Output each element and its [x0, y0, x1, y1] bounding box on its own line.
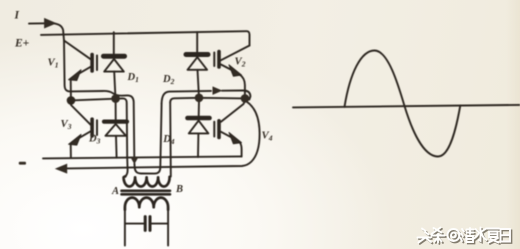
junction dot2 [111, 94, 120, 103]
wire V1 emitter to node [70, 80, 72, 97]
wire bottom rail [43, 156, 242, 158]
wire current path through primary U [134, 104, 161, 174]
junction dot3 [195, 94, 204, 103]
junction dot4 [241, 94, 250, 103]
transformer core [122, 190, 171, 193]
wire V3 emitter to bottom rail [70, 144, 72, 158]
diode D3 [104, 101, 127, 158]
transformer primary winding [124, 176, 170, 186]
wire secondary left lead [124, 210, 126, 246]
wire secondary right lead [167, 210, 169, 246]
diode D2 [186, 32, 208, 94]
diode D1 [104, 32, 125, 94]
wire V2 emitter to node [240, 75, 245, 96]
arrowhead input I [44, 18, 57, 29]
arrowhead path down A [130, 157, 138, 164]
transistor V2 [214, 46, 249, 77]
wire V1 branch from rail [63, 35, 66, 41]
arrowheads [44, 18, 222, 174]
wire lead A lower [125, 157, 127, 177]
wire current path upper return to V4 [162, 91, 211, 104]
transistor V4 [214, 102, 244, 144]
diode D4 [188, 101, 210, 157]
transistor V3 [69, 103, 97, 145]
label minus [19, 162, 26, 165]
waveform sine [345, 51, 461, 157]
wire lead B [169, 103, 172, 177]
transistor V1 [64, 41, 97, 81]
transformer secondary winding [125, 198, 168, 210]
wire load branch [125, 223, 168, 225]
wire V4 emitter to bottom rail [240, 142, 242, 156]
wire top rail E+ [41, 31, 250, 45]
node I input arrow wire [29, 22, 46, 24]
arrowhead return left [55, 164, 67, 174]
wire current path around V4 [68, 102, 260, 169]
wire mid rail left [71, 98, 127, 157]
wire current path left leg [64, 41, 134, 158]
waveform axis [293, 105, 520, 108]
junction dot1 [67, 96, 76, 105]
wire input bend into rail [52, 23, 64, 34]
capacitor load [144, 217, 147, 231]
wire mid rail right [170, 98, 245, 103]
arrowhead path right [213, 86, 223, 95]
